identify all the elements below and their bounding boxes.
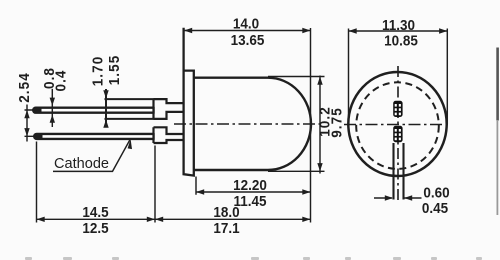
lead 1 (anode, top) thin wire drawn solid with white slit (36, 100, 166, 117)
svg-text:0.4: 0.4 (53, 70, 70, 92)
svg-text:14.5: 14.5 (82, 204, 108, 221)
svg-text:18.0: 18.0 (213, 204, 239, 221)
lead 2 (cathode, bottom) thin wire drawn solid with white slit (37, 129, 166, 142)
front view leads protruding below circle (394, 143, 404, 200)
svg-text:13.65: 13.65 (231, 32, 265, 49)
horizontal centerline of side view (174, 123, 322, 125)
base flange of LED body (side view) + extension line up to 14.0 dimension (184, 28, 194, 176)
svg-text:12.20: 12.20 (233, 177, 267, 194)
lead 2 cross-section hatch block (front view) (393, 126, 402, 142)
front view inner dashed circle (body outline hidden edge) (356, 82, 439, 169)
lead 1 stand-off collar and inner lead section to flange (154, 99, 185, 119)
svg-text:12.5: 12.5 (82, 220, 108, 237)
dimension 2.54 lead pitch (left of leads) (16, 72, 34, 141)
dimension 1.70/1.55 lead collar width with extension lines (90, 55, 154, 128)
svg-text:9.75: 9.75 (329, 107, 346, 138)
horizontal centerline of front view (344, 124, 451, 126)
dimension 14.5/12.5 lead length and 18.0/17.1 overall length (bottom chain) (37, 142, 311, 237)
LED package body (side view) with domed lens (194, 78, 311, 170)
svg-text:1.55: 1.55 (106, 55, 123, 86)
dimension 14.0/13.65 body diameter (top of side view) (184, 15, 311, 222)
lead 2 stand-off collar and inner lead section to flange (154, 127, 185, 143)
Cathode label with underline and leader arrow to lead 2 (53, 139, 132, 172)
svg-text:2.54: 2.54 (16, 72, 33, 103)
svg-text:0.60: 0.60 (423, 184, 449, 201)
svg-text:17.1: 17.1 (213, 220, 239, 237)
dimension 0.8/0.4 lead thickness (41, 67, 70, 127)
svg-text:14.0: 14.0 (233, 15, 259, 32)
dimension 0.60/0.45 lead width (below front view) (374, 184, 450, 216)
svg-text:0.45: 0.45 (422, 199, 448, 216)
vertical centerline of front view (397, 66, 399, 200)
svg-text:1.70: 1.70 (90, 56, 107, 87)
faint cropped text remnants at bottom edge (25, 257, 482, 260)
dimension 11.30/10.85 flange diameter (top of front view) (349, 17, 448, 124)
right page-edge grey scrollbar line (496, 48, 499, 216)
front view outer circle (flange outline) (348, 72, 446, 176)
dimension 12.20/11.45 body length without flange (196, 177, 311, 209)
lead 1 cross-section hatch block (front view) (393, 101, 402, 117)
svg-text:11.30: 11.30 (382, 17, 415, 34)
svg-text:Cathode: Cathode (54, 156, 109, 172)
dimension 10.2/9.75 body height (right of side view) (268, 76, 346, 174)
svg-text:10.85: 10.85 (384, 32, 418, 49)
